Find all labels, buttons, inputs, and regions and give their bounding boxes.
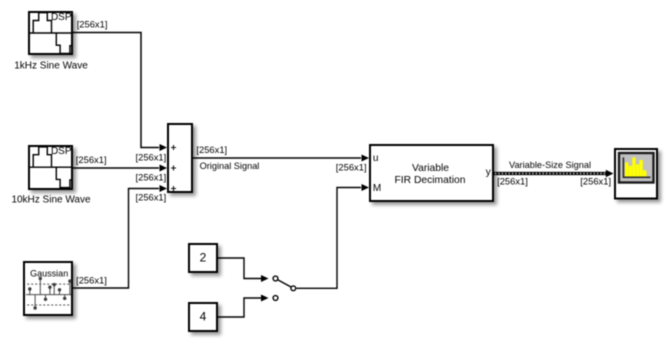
svg-text:M: M bbox=[373, 183, 381, 194]
arrowhead at Sum port1 bbox=[160, 144, 168, 151]
block VariableFIRDecimation body bbox=[370, 145, 493, 201]
svg-text:DSP: DSP bbox=[51, 146, 72, 157]
icon Scope axis bbox=[623, 157, 650, 177]
svg-text:Variable: Variable bbox=[412, 163, 449, 174]
label + (Sum port3) bbox=[171, 186, 176, 191]
block Sine2 body (10kHz Sine Wave) bbox=[29, 146, 72, 189]
svg-text:[256x1]: [256x1] bbox=[76, 154, 107, 165]
arrowhead at Scope input bbox=[606, 170, 614, 178]
wire FIR y -> Scope (variable-size signal) bbox=[494, 172, 607, 175]
icon Scope yellow bars bbox=[625, 157, 646, 177]
svg-text:Variable-Size Signal: Variable-Size Signal bbox=[509, 160, 591, 170]
arrowhead at Switch input1 bbox=[261, 275, 269, 282]
svg-text:2: 2 bbox=[200, 250, 207, 264]
svg-text:Original Signal: Original Signal bbox=[200, 161, 260, 171]
icon Gaussian stem plot bbox=[26, 279, 71, 308]
svg-text:Gaussian: Gaussian bbox=[30, 268, 68, 278]
arrowhead at Sum port2 bbox=[160, 165, 168, 172]
svg-text:[256x1]: [256x1] bbox=[136, 192, 167, 203]
block Sine1 body (1kHz Sine Wave) bbox=[29, 12, 72, 54]
arrowhead at Sum port3 bbox=[160, 185, 168, 192]
label + (Sum port2) bbox=[171, 166, 176, 171]
svg-text:1kHz Sine Wave: 1kHz Sine Wave bbox=[14, 61, 88, 72]
arrowhead at Switch input2 bbox=[261, 295, 269, 302]
wire Sum -> FIR u bbox=[193, 157, 361, 159]
block Constant2 body bbox=[189, 244, 217, 272]
arrowhead at FIR u bbox=[362, 155, 370, 162]
svg-text:FIR Decimation: FIR Decimation bbox=[395, 175, 466, 186]
switch ManualSwitch lever bbox=[278, 280, 291, 287]
svg-text:[256x1]: [256x1] bbox=[497, 175, 528, 186]
svg-text:u: u bbox=[373, 153, 379, 164]
wire Sine1 -> Sum port1 bbox=[73, 33, 159, 148]
block Sum body bbox=[168, 124, 192, 192]
svg-text:4: 4 bbox=[200, 309, 207, 323]
block Gaussian (Random Source) body bbox=[24, 262, 72, 315]
block Constant4 body bbox=[189, 303, 217, 331]
svg-text:[256x1]: [256x1] bbox=[196, 144, 227, 155]
svg-text:[256x1]: [256x1] bbox=[136, 151, 167, 162]
svg-text:[256x1]: [256x1] bbox=[77, 18, 108, 29]
switch ManualSwitch input1 terminal bbox=[273, 276, 278, 281]
wire Constant4 -> Switch input2 bbox=[218, 298, 261, 317]
svg-text:[256x1]: [256x1] bbox=[76, 275, 107, 286]
wire Constant2 -> Switch input1 bbox=[218, 258, 261, 279]
svg-text:[256x1]: [256x1] bbox=[136, 172, 167, 183]
wire Switch -> FIR M bbox=[297, 188, 362, 289]
svg-text:[256x1]: [256x1] bbox=[580, 175, 611, 186]
label + (Sum port1) bbox=[171, 145, 176, 150]
switch ManualSwitch input2 terminal bbox=[273, 296, 278, 301]
wire Gaussian -> Sum port3 bbox=[72, 189, 159, 289]
switch ManualSwitch output terminal bbox=[291, 286, 296, 291]
svg-text:10kHz Sine Wave: 10kHz Sine Wave bbox=[11, 194, 91, 205]
arrowhead at FIR M bbox=[362, 184, 370, 191]
icon Scope screen panel bbox=[619, 153, 654, 183]
icon Sine2 stepped sine wave bbox=[28, 147, 73, 188]
svg-text:[256x1]: [256x1] bbox=[336, 162, 367, 173]
svg-text:DSP: DSP bbox=[51, 12, 72, 23]
svg-text:y: y bbox=[486, 167, 491, 178]
wire Sine2 -> Sum port2 bbox=[73, 167, 159, 169]
block Scope (Array Plot) body bbox=[615, 149, 657, 199]
icon Sine1 stepped sine wave bbox=[28, 13, 73, 54]
